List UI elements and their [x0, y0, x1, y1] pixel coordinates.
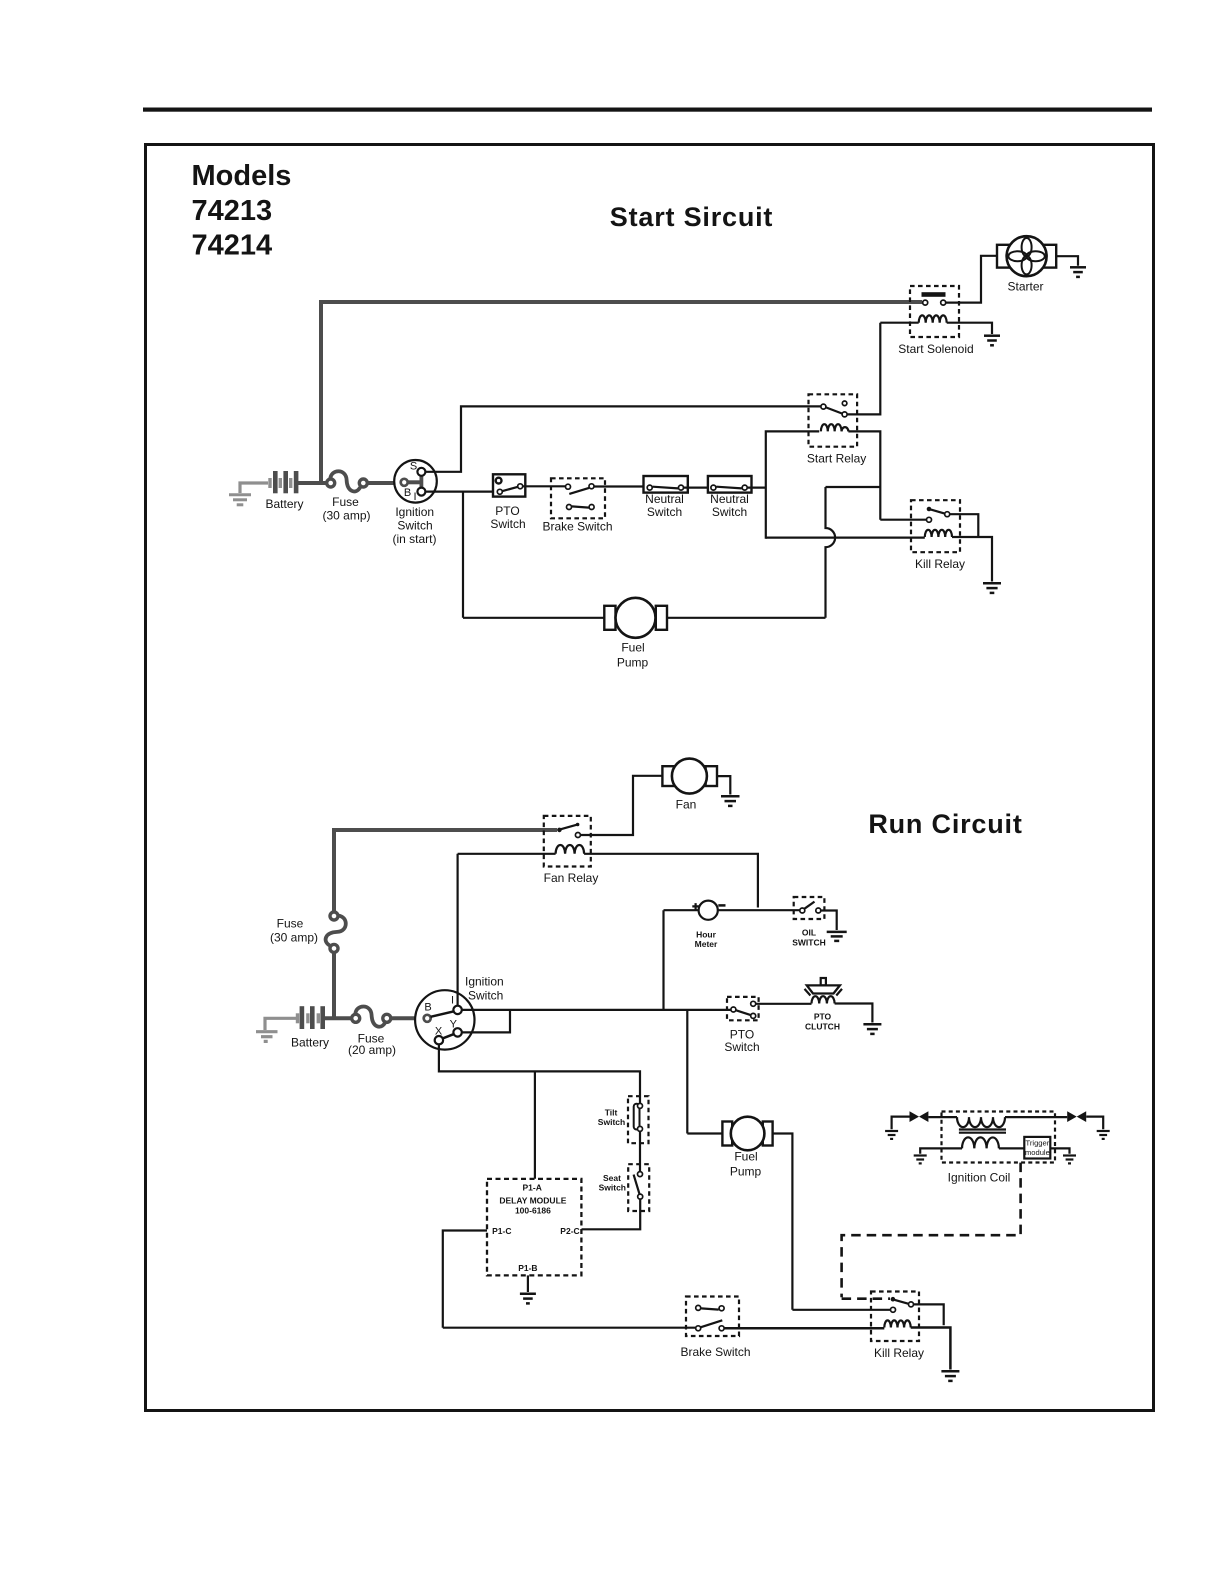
fuse F1 (30 amp) — [327, 471, 368, 491]
wire Y jog to run feed — [462, 1010, 510, 1033]
fuel pump M2 (start circuit) — [604, 598, 667, 638]
battery BT1 (start circuit) — [268, 471, 298, 493]
svg-text:(30 amp): (30 amp) — [322, 509, 370, 523]
svg-text:Switch: Switch — [712, 505, 747, 519]
svg-text:(30 amp): (30 amp) — [270, 931, 318, 945]
seat switch S6 — [628, 1164, 649, 1211]
svg-text:Trigger: Trigger — [1026, 1139, 1050, 1148]
svg-text:P1-A: P1-A — [523, 1183, 542, 1193]
fuse F2 (30 amp, run circuit) — [326, 912, 346, 952]
wire fuel pump loop to relay node — [667, 487, 881, 618]
svg-text:Battery: Battery — [291, 1036, 329, 1050]
wire PTO to brake switch — [523, 485, 565, 487]
svg-text:B: B — [424, 1002, 431, 1014]
svg-text:SWITCH: SWITCH — [792, 938, 826, 948]
wire primary left lead to ground — [920, 1148, 962, 1153]
wire kill relay contact to ground lead — [950, 514, 992, 581]
border frame — [146, 145, 1154, 1411]
svg-text:Models: Models — [192, 160, 292, 192]
svg-text:Y: Y — [450, 1019, 458, 1031]
start relay K1 — [809, 394, 858, 446]
fan motor M3 — [662, 759, 717, 794]
svg-text:I: I — [451, 995, 454, 1007]
svg-text:Start Relay: Start Relay — [807, 452, 866, 466]
brake switch (start circuit) — [551, 478, 605, 518]
wire ignition I up to fan relay coil — [458, 854, 556, 1006]
wire riser (start relay coil feed) — [766, 431, 819, 538]
wire start relay coil to kill relay input — [848, 431, 926, 519]
wire oil switch to ground — [821, 911, 837, 931]
ignition switch S1 (in start) — [394, 460, 437, 503]
ground (battery, run circuit) — [256, 1018, 296, 1041]
wire kill relay contact to ground lead — [914, 1304, 944, 1325]
svg-text:Ignition Coil: Ignition Coil — [948, 1171, 1011, 1185]
wire run to kill relay coil — [766, 536, 925, 538]
tilt switch S5 — [628, 1096, 649, 1143]
wire battery to fuse (thick) — [298, 481, 327, 485]
ignition switch S2 (run circuit) — [415, 990, 474, 1049]
svg-text:(in start): (in start) — [392, 532, 436, 546]
svg-text:Kill Relay: Kill Relay — [874, 1346, 924, 1360]
ground (trigger module) — [1063, 1156, 1076, 1164]
wire fan relay contact to fan — [581, 776, 663, 835]
neutral switch 1 — [644, 476, 688, 493]
svg-text:B: B — [404, 487, 411, 499]
wire secondary right lead — [1005, 1116, 1067, 1118]
ground (ignition coil right) — [1097, 1131, 1110, 1139]
svg-text:P1-C: P1-C — [492, 1226, 511, 1236]
wire run feed down to fuel pump — [687, 1010, 722, 1134]
start solenoid L1 — [910, 286, 959, 337]
ground (primary left) — [914, 1156, 927, 1164]
svg-text:Pump: Pump — [617, 656, 649, 670]
svg-text:S: S — [410, 461, 417, 473]
svg-text:X: X — [435, 1026, 443, 1038]
svg-text:74214: 74214 — [192, 230, 273, 262]
svg-text:Run Circuit: Run Circuit — [868, 809, 1022, 839]
svg-text:CLUTCH: CLUTCH — [805, 1022, 840, 1032]
wire fuse to ignition switch B — [368, 481, 401, 485]
wire solenoid contact to starter — [946, 256, 997, 303]
svg-text:Switch: Switch — [598, 1117, 625, 1127]
fuel pump M5 (run circuit) — [722, 1117, 772, 1151]
wire start relay contact up to solenoid coil — [847, 323, 918, 415]
svg-text:Brake Switch: Brake Switch — [542, 520, 612, 534]
wire neutral 2 to riser node — [748, 487, 766, 489]
wire brake switch to kill relay coil — [725, 1327, 885, 1330]
ground (fan) — [721, 796, 740, 806]
trigger module U2 — [1024, 1137, 1050, 1159]
svg-text:PTO: PTO — [814, 1012, 832, 1022]
svg-text:100-6186: 100-6186 — [515, 1205, 551, 1215]
diode pair D2 (right) — [1067, 1111, 1086, 1122]
wire diode to ground (left) — [892, 1117, 910, 1130]
wire 30 amp fuse up and right to fan relay (thick) — [332, 830, 557, 912]
svg-text:I: I — [413, 491, 416, 503]
PTO switch S4 (run circuit) — [727, 997, 759, 1020]
svg-text:Start Solenoid: Start Solenoid — [898, 342, 973, 356]
ground (start solenoid) — [984, 336, 1000, 346]
svg-text:Battery: Battery — [265, 497, 303, 511]
wire battery to 20 amp fuse (thick) — [325, 1016, 352, 1020]
wire riser battery junction up to 30 amp fuse — [332, 953, 336, 1019]
neutral switch 2 — [708, 476, 752, 493]
diode pair D1 (left) — [910, 1111, 929, 1122]
svg-text:module: module — [1025, 1148, 1050, 1157]
svg-text:Neutral: Neutral — [645, 492, 684, 506]
wire brake to neutral switch 1 — [594, 485, 647, 487]
svg-text:Fuse: Fuse — [332, 495, 359, 509]
svg-text:Fuel: Fuel — [621, 641, 644, 655]
wire fuel pump to kill relay input — [773, 1134, 891, 1310]
svg-text:Fan: Fan — [676, 798, 697, 812]
ground (battery, start circuit) — [229, 483, 268, 505]
wire delay module P1-C to brake switch — [443, 1231, 696, 1328]
svg-text:P1-B: P1-B — [518, 1263, 537, 1273]
wire tilt switch to seat switch — [639, 1132, 641, 1171]
top rule — [143, 108, 1152, 112]
svg-text:Meter: Meter — [695, 939, 718, 949]
ground (PTO clutch) — [863, 1024, 881, 1034]
svg-text:Ignition: Ignition — [465, 975, 504, 989]
wire fan to ground — [717, 776, 730, 794]
svg-text:Fuse: Fuse — [277, 917, 304, 931]
svg-text:P2-C: P2-C — [560, 1226, 579, 1236]
svg-text:Switch: Switch — [599, 1182, 626, 1192]
svg-text:Neutral: Neutral — [710, 492, 749, 506]
svg-text:Switch: Switch — [468, 989, 503, 1003]
ground (delay module) — [520, 1294, 536, 1304]
svg-text:Switch: Switch — [490, 517, 525, 531]
svg-text:DELAY MODULE: DELAY MODULE — [499, 1196, 566, 1206]
wire 20 amp fuse to ignition switch B — [391, 1016, 424, 1020]
wire neutral 1 to neutral 2 — [684, 487, 711, 489]
svg-text:(20 amp): (20 amp) — [348, 1043, 396, 1057]
wire ignition I to PTO switch — [425, 491, 497, 493]
brake switch S7 (run circuit) — [686, 1297, 739, 1337]
svg-text:Start Sircuit: Start Sircuit — [610, 202, 773, 232]
wire delay module P1-B to ground — [527, 1275, 529, 1292]
delay module U1 — [487, 1179, 581, 1276]
kill relay K4 (run circuit) — [871, 1292, 919, 1342]
wire junction up to solenoid feed — [319, 302, 922, 485]
wire solenoid coil to ground — [947, 323, 992, 334]
svg-text:Brake Switch: Brake Switch — [680, 1345, 750, 1359]
ground (starter) — [1070, 267, 1086, 277]
oil switch S3 — [794, 897, 825, 919]
hour meter M4 — [664, 901, 726, 1010]
svg-text:Fuel: Fuel — [734, 1150, 757, 1164]
ground (ignition coil left) — [885, 1131, 898, 1139]
fan relay K3 — [544, 816, 591, 867]
wire seat switch to delay module P2-C — [582, 1200, 641, 1230]
wire starter to ground — [1056, 256, 1078, 266]
wire PTO switch to PTO clutch — [756, 1003, 812, 1005]
fuse F3 (20 amp) — [352, 1007, 391, 1027]
wire fan relay coil to hour meter junction — [584, 854, 800, 910]
battery BT1 (run circuit) — [296, 1006, 325, 1029]
svg-text:OIL: OIL — [802, 928, 816, 938]
wire secondary left lead — [928, 1116, 957, 1118]
ground (kill relay, run circuit) — [941, 1371, 959, 1381]
ignition coil T1 — [942, 1112, 1056, 1163]
wire primary right lead to trigger module — [999, 1147, 1024, 1149]
svg-text:Switch: Switch — [647, 505, 682, 519]
ground (kill relay, start circuit) — [983, 583, 1001, 593]
PTO clutch L2 — [805, 978, 843, 1004]
ground (oil switch) — [827, 932, 847, 941]
svg-text:Starter: Starter — [1007, 280, 1043, 294]
wire diode to ground (right) — [1086, 1117, 1103, 1130]
svg-text:74213: 74213 — [192, 195, 273, 227]
svg-text:Switch: Switch — [397, 519, 432, 533]
kill relay K2 (start circuit) — [911, 500, 960, 552]
svg-text:Switch: Switch — [724, 1040, 759, 1054]
wire X down to accessory line — [439, 1044, 640, 1103]
wire branch down to delay module P1-A — [534, 1071, 536, 1178]
wire junction down to fuel pump — [463, 492, 604, 618]
PTO switch (start circuit) — [493, 474, 525, 496]
svg-text:Kill Relay: Kill Relay — [915, 557, 965, 571]
svg-text:Fan Relay: Fan Relay — [544, 871, 599, 885]
starter motor M1 — [997, 236, 1056, 276]
svg-text:Pump: Pump — [730, 1165, 762, 1179]
wire trigger module to ground — [1050, 1148, 1069, 1153]
wire ignition I right (run feed) — [462, 1009, 731, 1011]
wire PTO clutch to ground — [835, 1004, 873, 1023]
wire kill signal (dashed) trigger module to kill relay — [842, 1163, 1021, 1299]
wire ignition S to start relay — [425, 406, 820, 471]
svg-text:Ignition: Ignition — [395, 505, 434, 519]
